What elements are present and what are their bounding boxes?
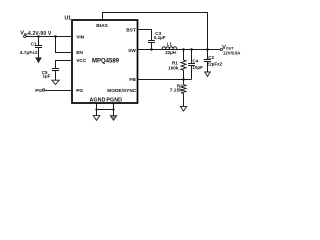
resistor R1 (181, 60, 186, 70)
wire R1 top stub (183, 50, 185, 61)
svg-text:10pF: 10pF (192, 65, 203, 70)
resistor R2 (181, 85, 186, 94)
svg-text:12V/0.8A: 12V/0.8A (223, 50, 240, 55)
node VOUT junction C4 (190, 48, 192, 50)
wire AGND stub (96, 103, 98, 110)
svg-text:VIN: VIN (20, 31, 28, 37)
wire C3 bottom to SW (151, 43, 153, 50)
svg-text:PG: PG (35, 88, 42, 94)
svg-text:C4: C4 (192, 58, 198, 63)
svg-text:4.7µFx2: 4.7µFx2 (20, 50, 38, 55)
ground under C5 (52, 80, 59, 84)
capacitor C5 (52, 69, 59, 71)
inductor L1 (162, 47, 177, 50)
svg-text:0.1µF: 0.1µF (154, 35, 166, 40)
svg-text:BST: BST (126, 28, 136, 34)
svg-text:22µH: 22µH (165, 50, 176, 55)
svg-text:C2: C2 (208, 55, 214, 60)
svg-text:4.2V-90 V: 4.2V-90 V (28, 31, 52, 37)
svg-text:MODE/SYNC: MODE/SYNC (107, 88, 137, 94)
wire SW to L1 (138, 49, 221, 51)
svg-text:VIN: VIN (76, 34, 85, 40)
ground PGND (filled) (110, 116, 117, 121)
wire VIN rail (26, 36, 72, 38)
wire FB rail (138, 79, 192, 81)
svg-text:SW: SW (128, 48, 136, 54)
capacitor C4 (188, 64, 195, 66)
ground (filled arrow) under C1 (35, 57, 42, 63)
wire EN drop (56, 37, 73, 53)
wire PG (45, 90, 72, 92)
svg-text:BIAS: BIAS (96, 23, 108, 29)
wire C4 bottom stub (191, 66, 193, 80)
wire AGND-PGND bar (97, 109, 114, 111)
capacitor C1 (35, 46, 42, 48)
node VOUT junction BIAS/C2 (206, 48, 208, 50)
wire BST to C3 (138, 30, 152, 41)
svg-text:PG: PG (76, 88, 83, 94)
wire BIAS top loop (103, 13, 208, 50)
svg-text:EN: EN (76, 50, 83, 56)
wire L1 to VOUT terminal (177, 49, 221, 51)
svg-text:VCC: VCC (76, 58, 87, 64)
capacitor C2 (204, 60, 211, 62)
wire PGND stub (113, 103, 115, 110)
svg-text:C1: C1 (31, 41, 37, 46)
ground under C2 (205, 72, 211, 76)
wire C5 to ground (55, 71, 57, 81)
wire R2 top stub (183, 80, 185, 85)
wire R1 bottom to FB rail (183, 70, 185, 80)
node PGND bar right (112, 108, 114, 110)
svg-text:FB: FB (129, 77, 136, 83)
svg-text:U1: U1 (65, 16, 72, 22)
node AGND bar left (95, 108, 97, 110)
wire C2 drop (207, 50, 209, 60)
terminal PG (43, 89, 45, 91)
node VIN junction EN (54, 35, 56, 37)
node VOUT junction R1 (182, 48, 184, 50)
ground under R2 (180, 106, 186, 111)
svg-text:AGND: AGND (90, 97, 106, 103)
wire R2 bottom stub (183, 93, 185, 106)
wire C2 to ground (207, 62, 209, 73)
wire C1 drop (38, 37, 40, 46)
svg-text:1µF: 1µF (43, 74, 51, 79)
terminal VIN (24, 35, 26, 37)
wire PGND ground stem (113, 110, 115, 119)
wire C4 top stub (191, 50, 193, 64)
svg-text:PGND: PGND (106, 97, 122, 103)
node VIN junction C1 (37, 35, 39, 37)
svg-text:22µFx2: 22µFx2 (207, 62, 223, 67)
capacitor C3 (148, 41, 155, 43)
node FB junction R1/R2 (182, 78, 184, 80)
ground AGND (open) (93, 116, 100, 121)
svg-text:L1: L1 (167, 41, 173, 46)
op-amp U1 IC body MPQ4589 (72, 20, 138, 103)
wire C1 to ground (38, 48, 40, 59)
svg-text:100k: 100k (168, 66, 179, 71)
node SW junction C3 (150, 48, 152, 50)
svg-text:MPQ4589: MPQ4589 (92, 59, 120, 65)
wire VCC to C5 (56, 61, 73, 69)
terminal VOUT (220, 48, 222, 50)
svg-text:7.15k: 7.15k (170, 88, 183, 93)
wire AGND ground stem (96, 110, 98, 116)
